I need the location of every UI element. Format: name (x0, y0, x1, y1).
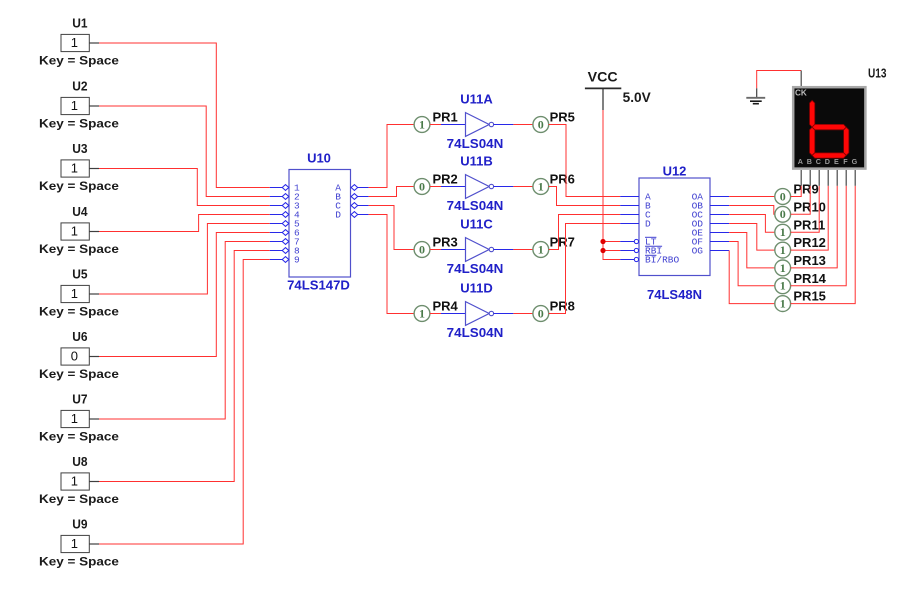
wire PR2 to U11B input (430, 186, 441, 188)
U10 pin 2 (270, 192, 300, 203)
wire U8 to U10 pin 8 (99, 251, 270, 482)
svg-text:U13: U13 (868, 66, 887, 81)
wire PR1 to U11A input (430, 124, 441, 126)
wire U10 C to PR3 (369, 206, 415, 250)
svg-text:0: 0 (71, 348, 78, 363)
svg-text:PR5: PR5 (550, 109, 575, 124)
switch U5 (39, 266, 119, 318)
probe PR14 (775, 271, 827, 294)
wire PR7 to U12 C (549, 215, 621, 250)
svg-text:74LS04N: 74LS04N (447, 325, 504, 340)
svg-text:Key = Space: Key = Space (39, 119, 119, 131)
inverter U11D 74LS04N (441, 281, 513, 340)
svg-text:1: 1 (538, 179, 544, 193)
switch U7 (39, 391, 119, 443)
wire U13 pin A to PR9 (791, 186, 802, 197)
svg-text:PR14: PR14 (793, 271, 826, 286)
svg-text:U5: U5 (72, 266, 87, 281)
U13 segment F (lit) (810, 100, 815, 127)
probe PR3 (414, 234, 458, 257)
svg-text:74LS04N: 74LS04N (447, 136, 504, 151)
svg-text:PR10: PR10 (793, 199, 826, 214)
svg-text:74LS04N: 74LS04N (447, 198, 504, 213)
wire PR3 to U11C input (430, 249, 441, 251)
U13 segment E (lit) (810, 127, 815, 155)
U13 pin E stub (836, 170, 838, 186)
svg-text:74LS48N: 74LS48N (647, 287, 702, 302)
svg-text:1: 1 (780, 297, 786, 311)
decoder U12 74LS48N (639, 164, 710, 303)
probe PR10 (775, 199, 826, 222)
switch U1 (39, 15, 119, 67)
wire PR5 to U12 A (549, 125, 621, 197)
svg-text:PR6: PR6 (550, 171, 575, 186)
U12 pin OF (692, 237, 730, 248)
power VCC 5.0V (585, 69, 651, 110)
probe PR12 (775, 235, 826, 258)
svg-text:U9: U9 (72, 516, 87, 531)
junction VCC-RBI (600, 248, 605, 253)
U10 pin A (335, 183, 368, 194)
wire U13 pin D to PR12 (791, 186, 829, 250)
svg-text:0: 0 (419, 179, 425, 193)
svg-text:1: 1 (71, 223, 78, 238)
U10 pin B (335, 192, 368, 203)
svg-text:74LS04N: 74LS04N (447, 261, 504, 276)
svg-text:D: D (645, 219, 651, 230)
svg-text:PR12: PR12 (793, 235, 826, 250)
svg-text:0: 0 (538, 306, 544, 320)
wire U6 to U10 pin 6 (99, 233, 270, 357)
svg-text:U2: U2 (72, 78, 87, 93)
svg-text:Key = Space: Key = Space (39, 244, 119, 256)
U12 pin OD (692, 219, 730, 230)
U10 pin C (335, 201, 368, 212)
wire U11B output to PR6 (513, 186, 533, 188)
svg-text:Key = Space: Key = Space (39, 56, 119, 68)
U10 pin 1 (270, 183, 300, 194)
svg-text:1: 1 (538, 242, 544, 256)
svg-text:PR2: PR2 (433, 171, 458, 186)
svg-text:0: 0 (780, 207, 786, 221)
wire U12 OD to PR12 (729, 224, 775, 251)
svg-text:E: E (834, 157, 839, 166)
U10 pin 5 (270, 219, 300, 230)
svg-text:PR7: PR7 (550, 234, 575, 249)
wire U10 B to PR2 (369, 187, 415, 197)
svg-text:9: 9 (294, 255, 300, 266)
svg-text:1: 1 (780, 261, 786, 275)
probe PR11 (775, 217, 825, 240)
svg-text:U1: U1 (72, 15, 87, 30)
U13 segment G (lit) (812, 124, 846, 129)
svg-text:C: C (816, 157, 821, 166)
U10 pin 9 (270, 255, 300, 266)
probe PR6 (533, 171, 575, 194)
wire U2 to U10 pin 2 (99, 106, 270, 197)
wire U13 pin B to PR10 (791, 186, 811, 215)
probe PR2 (414, 171, 458, 194)
svg-text:Key = Space: Key = Space (39, 369, 119, 381)
wire U12 OA to PR9 (729, 196, 775, 198)
U10 pin 4 (270, 210, 300, 221)
svg-text:PR15: PR15 (793, 289, 826, 304)
svg-text:0: 0 (419, 242, 425, 256)
wire PR6 to U12 B (549, 187, 621, 206)
wire U13 pin C to PR11 (791, 186, 820, 232)
wire ground to U13 CK (757, 71, 802, 89)
svg-text:U12: U12 (663, 164, 687, 179)
svg-text:1: 1 (71, 536, 78, 551)
probe PR1 (414, 109, 458, 132)
svg-text:1: 1 (419, 306, 425, 320)
svg-text:Key = Space: Key = Space (39, 307, 119, 319)
svg-text:PR1: PR1 (433, 109, 458, 124)
svg-text:1: 1 (71, 98, 78, 113)
svg-text:74LS147D: 74LS147D (287, 278, 350, 293)
wire PR4 to U11D input (430, 313, 441, 315)
U12 pin OB (692, 201, 730, 212)
wire U12 OE to PR13 (729, 233, 775, 268)
svg-text:U11B: U11B (460, 154, 493, 169)
svg-text:1: 1 (71, 160, 78, 175)
U12 pin OG (692, 246, 730, 257)
svg-text:PR3: PR3 (433, 234, 458, 249)
U12 pin OE (692, 228, 730, 239)
inverter U11B 74LS04N (441, 154, 513, 213)
svg-text:U3: U3 (72, 141, 87, 156)
svg-text:Key = Space: Key = Space (39, 494, 119, 506)
svg-text:CK: CK (795, 89, 807, 98)
switch U3 (39, 141, 119, 193)
wire U7 to U10 pin 7 (99, 242, 270, 420)
wire U4 to U10 pin 4 (99, 215, 270, 232)
wire U9 to U10 pin 9 (99, 260, 270, 545)
svg-text:1: 1 (71, 35, 78, 50)
svg-text:U11A: U11A (460, 92, 493, 107)
probe PR8 (533, 298, 575, 321)
wire U11D output to PR8 (513, 313, 533, 315)
wire U12 OF to PR14 (729, 242, 775, 286)
svg-text:U7: U7 (72, 391, 87, 406)
svg-text:PR8: PR8 (550, 298, 575, 313)
inverter U11C 74LS04N (441, 217, 513, 276)
svg-text:PR9: PR9 (793, 182, 818, 197)
wire U13 pin E to PR13 (791, 186, 838, 268)
svg-text:0: 0 (538, 117, 544, 131)
U13 pin B stub (809, 170, 811, 186)
U12 pin C (620, 210, 651, 221)
svg-text:5.0V: 5.0V (623, 90, 651, 105)
svg-text:0: 0 (780, 189, 786, 203)
svg-text:Key = Space: Key = Space (39, 557, 119, 569)
U12 pin D (620, 219, 651, 230)
svg-text:1: 1 (71, 411, 78, 426)
switch U4 (39, 204, 119, 256)
svg-text:Key = Space: Key = Space (39, 432, 119, 444)
svg-text:1: 1 (71, 286, 78, 301)
svg-text:1: 1 (419, 117, 425, 131)
probe PR4 (414, 298, 458, 321)
U10 pin 7 (270, 237, 300, 248)
wire U12 OB to PR10 (729, 206, 775, 215)
wire U10 D to PR4 (369, 215, 415, 314)
svg-text:U10: U10 (307, 150, 331, 165)
wire U5 to U10 pin 5 (99, 224, 270, 295)
wire U11C output to PR7 (513, 249, 533, 251)
probe PR5 (533, 109, 575, 132)
U13 segment D (lit) (812, 153, 846, 158)
svg-text:1: 1 (780, 243, 786, 257)
U12 pin LT (620, 237, 657, 248)
U12 pin B (620, 201, 651, 212)
switch U2 (39, 78, 119, 130)
encoder U10 74LS147D (287, 150, 350, 292)
wire U12 OG to PR15 (729, 251, 775, 304)
svg-text:PR13: PR13 (793, 253, 826, 268)
U13 pin D stub (827, 170, 829, 186)
svg-text:U4: U4 (72, 204, 88, 219)
svg-text:D: D (825, 157, 830, 166)
svg-text:PR11: PR11 (793, 217, 825, 232)
probe PR7 (533, 234, 575, 257)
svg-text:Key = Space: Key = Space (39, 181, 119, 193)
svg-text:U6: U6 (72, 329, 87, 344)
U10 pin 8 (270, 246, 300, 257)
junction VCC-LT (600, 239, 605, 244)
wire VCC to U12 LT/RBI/BI (603, 110, 620, 260)
probe PR15 (775, 289, 826, 312)
svg-text:A: A (798, 157, 803, 166)
U13 pin G stub (854, 170, 856, 186)
U10 pin D (335, 210, 368, 221)
svg-text:D: D (335, 210, 341, 221)
svg-text:1: 1 (71, 473, 78, 488)
svg-text:U11C: U11C (460, 217, 493, 232)
wire U10 A to PR1 (369, 125, 415, 188)
wire U13 pin F to PR14 (791, 186, 847, 286)
svg-text:1: 1 (780, 279, 786, 293)
svg-text:U8: U8 (72, 454, 87, 469)
switch U8 (39, 454, 119, 506)
svg-text:1: 1 (780, 225, 786, 239)
U10 pin 3 (270, 201, 300, 212)
svg-text:B: B (807, 157, 812, 166)
inverter U11A 74LS04N (441, 92, 513, 151)
probe PR13 (775, 253, 826, 276)
svg-text:U11D: U11D (460, 281, 493, 296)
wire U12 OC to PR11 (729, 215, 775, 233)
U13 pin C stub (818, 170, 820, 186)
switch U9 (39, 516, 119, 568)
wire U1 to U10 pin 1 (99, 43, 270, 188)
U12 pin OA (692, 192, 730, 203)
wire U3 to U10 pin 3 (99, 169, 270, 206)
svg-text:VCC: VCC (588, 69, 618, 84)
svg-text:G: G (852, 157, 858, 166)
wire U11A output to PR5 (513, 124, 533, 126)
display U13 seven-segment (793, 66, 886, 169)
svg-text:BI/RBO: BI/RBO (645, 255, 680, 266)
U13 pin F stub (845, 170, 847, 186)
U13 pin A stub (800, 170, 802, 186)
ground (746, 88, 765, 103)
U12 pin A (620, 192, 651, 203)
svg-text:PR4: PR4 (433, 298, 459, 313)
U13 segment C (lit) (844, 127, 849, 155)
switch U6 (39, 329, 119, 381)
U12 pin RBI (620, 246, 662, 257)
probe PR9 (775, 182, 819, 205)
svg-text:F: F (843, 157, 848, 166)
wire U13 pin G to PR15 (791, 186, 856, 304)
svg-text:OG: OG (692, 246, 704, 257)
U12 pin OC (692, 210, 730, 221)
U10 pin 6 (270, 228, 300, 239)
U12 pin BI/RBO (620, 255, 679, 266)
wire PR8 to U12 D (549, 224, 621, 314)
